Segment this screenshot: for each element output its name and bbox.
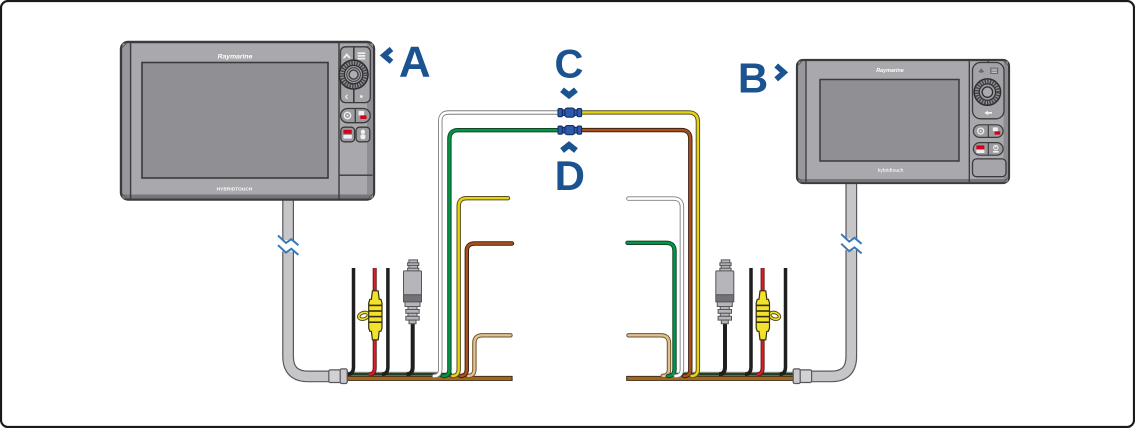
- svg-text:A: A: [399, 38, 431, 87]
- svg-text:hybridtouch: hybridtouch: [878, 168, 904, 174]
- svg-text:Raymarine: Raymarine: [876, 68, 904, 74]
- svg-text:D: D: [555, 152, 585, 199]
- svg-text:Raymarine: Raymarine: [218, 53, 253, 60]
- svg-text:C: C: [555, 43, 584, 87]
- svg-text:‹: ‹: [345, 91, 349, 103]
- svg-text:B: B: [738, 54, 768, 101]
- svg-text:HYBRIDTOUCH: HYBRIDTOUCH: [217, 186, 253, 191]
